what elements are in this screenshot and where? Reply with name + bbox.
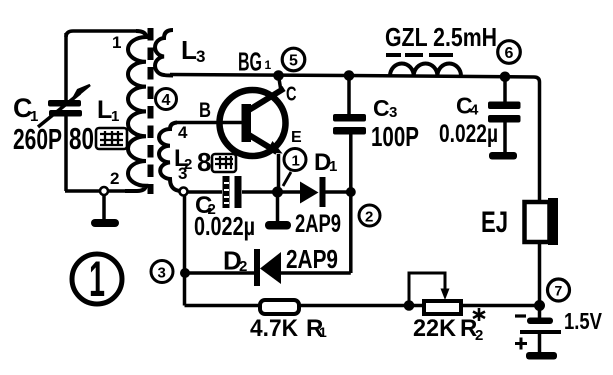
svg-text:4: 4 bbox=[178, 123, 188, 142]
svg-text:1: 1 bbox=[329, 158, 337, 175]
svg-text:5: 5 bbox=[289, 53, 298, 70]
svg-text:6: 6 bbox=[505, 45, 514, 62]
node 2 circle bbox=[359, 205, 380, 226]
junction battery top bbox=[534, 300, 545, 311]
wire left loop bottom bbox=[65, 189, 125, 193]
wire left loop top bbox=[66, 31, 136, 37]
svg-text:2AP9: 2AP9 bbox=[286, 244, 338, 274]
svg-text:E: E bbox=[291, 129, 302, 146]
svg-text:1: 1 bbox=[112, 33, 121, 52]
svg-text:80: 80 bbox=[69, 121, 94, 156]
svg-text:2: 2 bbox=[475, 327, 483, 344]
battery 1.5V bbox=[538, 306, 542, 318]
wire top rail bbox=[170, 75, 540, 203]
junction top rail at C3 bbox=[344, 70, 355, 81]
node 6 circle bbox=[498, 41, 521, 64]
transistor BG1 bbox=[220, 90, 286, 156]
svg-text:1: 1 bbox=[319, 324, 327, 340]
asterisk bbox=[473, 308, 485, 321]
svg-text:L: L bbox=[97, 96, 112, 124]
svg-text:2: 2 bbox=[110, 169, 119, 188]
wire bottom rail bbox=[185, 304, 540, 308]
resistor R1 bbox=[260, 300, 299, 314]
junction top rail at C4 bbox=[500, 72, 511, 83]
svg-text:1.5V: 1.5V bbox=[564, 308, 603, 334]
svg-text:100P: 100P bbox=[371, 121, 419, 152]
node (open) on bottom wire bbox=[100, 187, 108, 195]
svg-text:EJ: EJ bbox=[481, 206, 508, 239]
wire mid rail bbox=[187, 190, 351, 194]
inductor GZL 2.5mH bbox=[390, 63, 461, 76]
wire D2 rail bbox=[185, 271, 351, 275]
svg-text:22K: 22K bbox=[413, 315, 457, 342]
wire vertical C3/D1 to D2 rail bbox=[349, 134, 353, 273]
svg-text:4: 4 bbox=[162, 92, 171, 109]
svg-text:L: L bbox=[181, 35, 197, 65]
junction emitter node bbox=[272, 187, 283, 198]
capacitor C2 bbox=[223, 176, 230, 208]
inductor L2 bbox=[159, 123, 181, 192]
svg-text:C: C bbox=[286, 84, 297, 106]
svg-text:1: 1 bbox=[89, 251, 105, 307]
svg-text:1: 1 bbox=[292, 153, 300, 170]
svg-text:0.022µ: 0.022µ bbox=[439, 120, 498, 148]
junction D1 right bbox=[346, 187, 356, 197]
svg-text:3: 3 bbox=[196, 47, 205, 66]
capacitor C1 bbox=[48, 100, 82, 117]
junction D2 rail bbox=[180, 268, 190, 278]
svg-text:3: 3 bbox=[389, 104, 397, 121]
svg-text:3: 3 bbox=[158, 265, 166, 282]
inductor L3 bbox=[155, 30, 173, 76]
ground under L1 loop bbox=[102, 195, 106, 220]
svg-text:7: 7 bbox=[555, 283, 563, 299]
node 3 circle label bbox=[151, 261, 173, 283]
node 1 circle bbox=[284, 149, 306, 171]
svg-text:2: 2 bbox=[239, 258, 247, 275]
svg-text:BG: BG bbox=[238, 47, 262, 77]
node 7 circle bbox=[548, 279, 570, 301]
diode D2 bbox=[254, 249, 260, 286]
wire left loop vertical lower bbox=[64, 116, 68, 191]
svg-text:4: 4 bbox=[470, 102, 479, 119]
capacitor C3 bbox=[347, 76, 351, 115]
node 5 circle bbox=[282, 48, 305, 71]
capacitor C4 bbox=[503, 76, 507, 102]
pointer line node1 bbox=[283, 172, 291, 186]
node 4 circle bbox=[156, 89, 177, 110]
node 3 open circle bbox=[180, 188, 188, 196]
ferrite core dashed line bbox=[148, 28, 154, 194]
wire EJ to battery junction bbox=[538, 242, 542, 306]
svg-text:C: C bbox=[373, 95, 390, 121]
svg-text:1: 1 bbox=[111, 108, 119, 125]
diode D1 bbox=[300, 182, 319, 204]
svg-text:0.022µ: 0.022µ bbox=[194, 211, 255, 241]
svg-text:1: 1 bbox=[265, 58, 272, 72]
potentiometer R2 bbox=[424, 301, 461, 314]
wire base lead bbox=[176, 121, 242, 125]
svg-text:GZL 2.5mH: GZL 2.5mH bbox=[385, 22, 497, 52]
svg-text:4.7K: 4.7K bbox=[250, 315, 299, 342]
wire left loop vertical upper bbox=[64, 33, 68, 100]
speaker EJ bbox=[525, 202, 550, 242]
ground under emitter node bbox=[276, 192, 280, 221]
svg-text:2AP9: 2AP9 bbox=[295, 210, 341, 238]
wire L2 node down bbox=[183, 196, 187, 306]
junction top rail at collector bbox=[273, 70, 284, 81]
svg-text:1: 1 bbox=[30, 108, 38, 125]
svg-text:3: 3 bbox=[178, 164, 187, 183]
svg-text:2: 2 bbox=[365, 209, 373, 226]
svg-text:8: 8 bbox=[197, 147, 211, 177]
figure number circle 1 bbox=[72, 254, 122, 304]
inductor L1 bbox=[125, 31, 146, 191]
svg-text:B: B bbox=[199, 99, 211, 122]
svg-text:260P: 260P bbox=[13, 124, 62, 156]
